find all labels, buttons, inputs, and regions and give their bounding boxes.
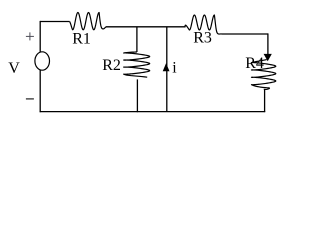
minus polarity mark [26, 98, 34, 100]
resistor R3 squiggle [185, 15, 222, 34]
svg-text:R3: R3 [193, 30, 212, 47]
wire right vertical upper [267, 33, 269, 55]
wire top middle horizontal [106, 26, 185, 28]
wire current branch vertical [166, 27, 168, 112]
svg-text:V: V [8, 60, 20, 77]
svg-text:i: i [172, 60, 177, 77]
wire right vertical lower [264, 90, 266, 113]
current arrow head (up) [163, 63, 170, 71]
resistor R4 squiggle [252, 60, 276, 90]
plus polarity mark [26, 32, 34, 40]
wire left vertical lower [39, 70, 41, 112]
arrow head into R4 (down) [264, 54, 272, 61]
wire left vertical upper [39, 21, 41, 52]
resistor R3 entry tick [184, 25, 186, 27]
svg-text:R2: R2 [102, 57, 121, 74]
svg-text:R1: R1 [72, 31, 91, 48]
resistor R1 squiggle [70, 13, 107, 30]
voltage source V ellipse [35, 52, 50, 70]
wire bottom horizontal [40, 111, 266, 113]
wire top right horizontal [222, 33, 268, 35]
wire R2 branch lower [136, 79, 138, 112]
wire R2 branch upper [136, 27, 138, 52]
resistor R2 squiggle [124, 52, 150, 77]
wire top-left horizontal [40, 21, 69, 23]
